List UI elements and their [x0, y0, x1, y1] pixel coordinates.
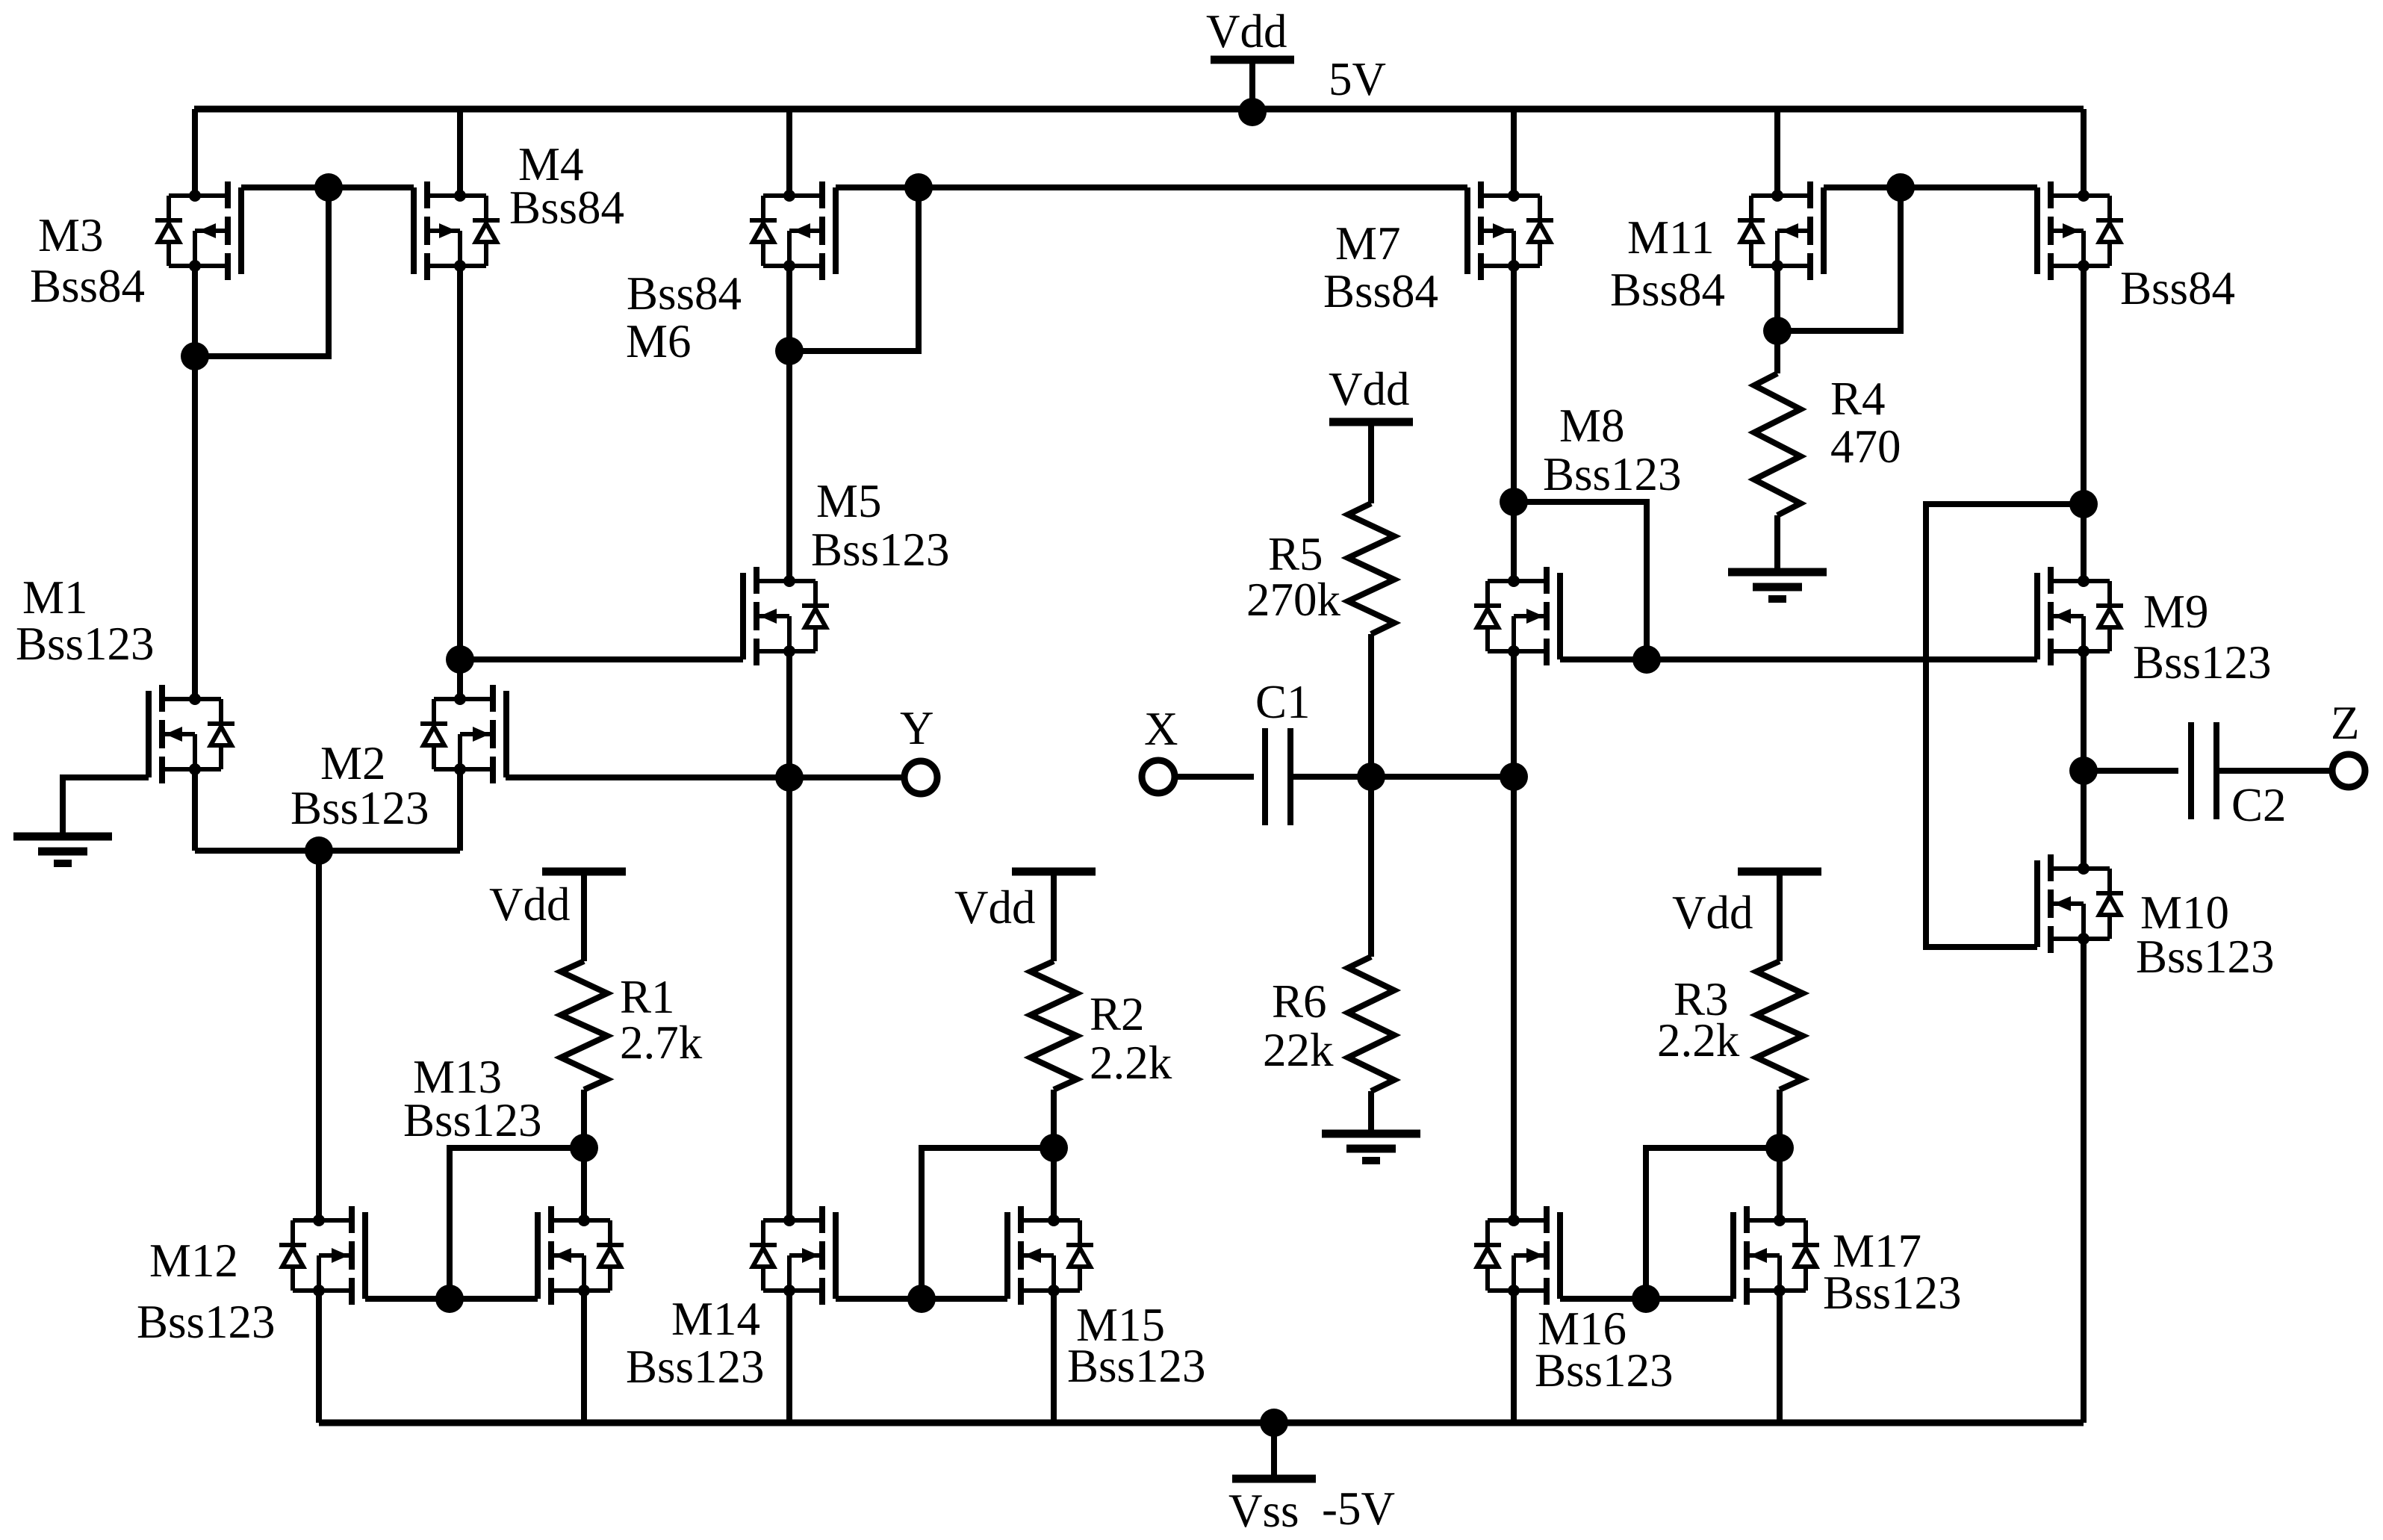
svg-text:Vdd: Vdd: [1206, 5, 1287, 58]
svg-text:R4: R4: [1830, 373, 1886, 425]
svg-text:470: 470: [1830, 420, 1901, 473]
svg-text:2.7k: 2.7k: [620, 1016, 703, 1069]
svg-text:Vdd: Vdd: [954, 881, 1036, 934]
svg-text:M1: M1: [22, 571, 88, 624]
svg-text:Y: Y: [900, 702, 934, 754]
svg-text:C2: C2: [2231, 779, 2287, 831]
svg-text:Bss123: Bss123: [2136, 931, 2275, 983]
svg-text:R2: R2: [1090, 988, 1145, 1040]
svg-text:Bss123: Bss123: [1067, 1340, 1206, 1392]
svg-text:Vdd: Vdd: [1329, 363, 1410, 415]
svg-text:Bss84: Bss84: [30, 260, 145, 312]
svg-text:M8: M8: [1559, 400, 1625, 452]
svg-text:Bss84: Bss84: [627, 267, 742, 320]
svg-text:Z: Z: [2331, 697, 2359, 749]
svg-text:Bss123: Bss123: [1535, 1344, 1674, 1397]
svg-text:Vdd: Vdd: [1672, 887, 1753, 939]
svg-text:M5: M5: [816, 475, 882, 527]
svg-text:Bss123: Bss123: [2133, 636, 2272, 689]
svg-text:22k: 22k: [1263, 1024, 1334, 1076]
svg-text:Bss123: Bss123: [811, 524, 950, 576]
svg-text:Bss123: Bss123: [403, 1094, 542, 1146]
svg-text:Bss84: Bss84: [509, 181, 624, 234]
svg-text:R6: R6: [1272, 975, 1327, 1028]
svg-text:Bss123: Bss123: [137, 1296, 276, 1348]
svg-text:Bss84: Bss84: [1610, 264, 1725, 316]
svg-text:Bss84: Bss84: [1323, 265, 1438, 317]
svg-text:X: X: [1144, 703, 1178, 755]
svg-text:M14: M14: [671, 1293, 760, 1345]
svg-text:5V: 5V: [1329, 53, 1386, 105]
svg-text:Bss123: Bss123: [1823, 1267, 1962, 1319]
svg-text:Bss123: Bss123: [291, 782, 429, 834]
svg-text:2.2k: 2.2k: [1090, 1037, 1172, 1089]
svg-text:270k: 270k: [1246, 574, 1341, 626]
svg-text:Vdd: Vdd: [489, 878, 571, 931]
svg-text:R1: R1: [620, 971, 675, 1023]
svg-text:2.2k: 2.2k: [1657, 1014, 1740, 1066]
svg-text:M11: M11: [1627, 211, 1715, 264]
svg-text:Vss: Vss: [1228, 1485, 1299, 1537]
svg-text:M12: M12: [149, 1235, 238, 1287]
svg-text:-5V: -5V: [1322, 1482, 1395, 1535]
svg-text:Bss123: Bss123: [1543, 448, 1682, 500]
svg-text:Bss123: Bss123: [16, 618, 155, 670]
svg-text:C1: C1: [1255, 676, 1311, 728]
svg-text:R5: R5: [1268, 528, 1323, 580]
svg-text:M3: M3: [38, 209, 104, 261]
svg-text:M6: M6: [626, 315, 692, 367]
svg-text:M7: M7: [1335, 217, 1401, 270]
svg-text:Bss84: Bss84: [2120, 262, 2235, 314]
svg-text:M9: M9: [2143, 586, 2209, 638]
svg-text:Bss123: Bss123: [626, 1341, 765, 1393]
